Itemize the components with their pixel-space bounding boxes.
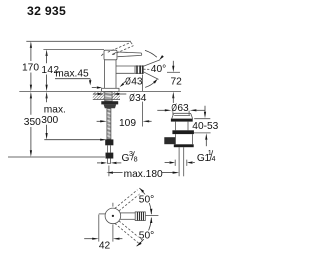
svg-text:4: 4 [212,154,216,163]
svg-text:Ø: Ø [129,92,135,104]
svg-text:350: 350 [24,117,41,128]
svg-text:170: 170 [22,63,39,74]
svg-text:max.45: max.45 [55,69,89,80]
svg-text:72: 72 [171,76,183,87]
svg-text:Ø: Ø [171,102,177,114]
svg-text:42: 42 [99,240,111,251]
svg-text:40°: 40° [151,64,166,75]
svg-text:Ø: Ø [125,75,131,87]
svg-text:max.180: max.180 [124,169,163,180]
svg-text:32 935: 32 935 [27,4,66,18]
svg-text:8: 8 [134,154,138,163]
svg-text:34: 34 [135,93,147,104]
svg-text:109: 109 [119,118,136,129]
svg-text:50°: 50° [139,230,154,241]
svg-text:300: 300 [41,115,58,126]
svg-text:max.: max. [44,104,66,115]
svg-text:40-53: 40-53 [192,121,218,132]
svg-text:50°: 50° [139,194,154,205]
svg-text:63: 63 [177,103,189,114]
svg-text:43: 43 [131,77,143,88]
